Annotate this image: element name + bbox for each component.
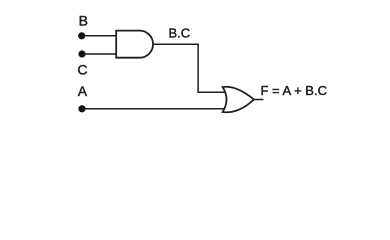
wire AND output horizontal [153,43,199,45]
node B terminal dot [78,32,85,39]
wire B to AND gate [82,35,117,37]
wire horizontal into OR top input [197,91,225,93]
svg-text:C: C [77,62,87,78]
wire C to AND gate [82,53,117,55]
wire vertical down from corner [197,44,199,92]
OR gate U2 [223,87,254,113]
node C terminal dot [78,50,85,57]
svg-text:B.C: B.C [169,26,191,41]
svg-text:F = A + B.C: F = A + B.C [261,83,327,98]
svg-text:B: B [79,13,88,29]
node A terminal dot [78,105,85,112]
svg-text:A: A [78,83,88,99]
wire OR output [254,99,264,101]
AND gate U1 [116,31,153,58]
wire A to OR gate [82,108,226,110]
